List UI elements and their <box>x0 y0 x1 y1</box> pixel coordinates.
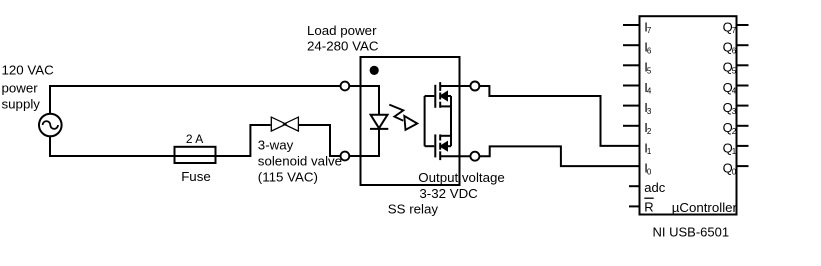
pin Q4 <box>723 80 749 96</box>
Q1 body stub <box>447 95 451 97</box>
Q1 gate lead <box>425 95 435 97</box>
fuse F1 (2 A) <box>175 147 216 163</box>
label: 120 VAC power supply <box>2 63 55 112</box>
pin Q6 <box>723 40 749 56</box>
terminal: SSR input top <box>341 82 350 91</box>
pin Q1 <box>723 140 749 156</box>
pin I4 <box>623 80 652 96</box>
svg-text:120 VAC: 120 VAC <box>2 63 55 78</box>
terminal: SSR output top <box>470 82 479 91</box>
LED D1 <box>370 115 388 129</box>
wire: input top terminal into LED anode <box>349 86 379 114</box>
svg-text:solenoid valve: solenoid valve <box>258 154 342 169</box>
pin I5 <box>623 60 652 76</box>
pin R (active low reset) <box>629 198 654 214</box>
label: 3-way solenoid valve (115 VAC) <box>258 138 342 185</box>
uController box NI USB-6501 <box>640 16 737 214</box>
pin I2 <box>623 120 652 136</box>
svg-text:SS relay: SS relay <box>388 201 439 216</box>
pin Q5 <box>723 60 749 76</box>
svg-text:2 A: 2 A <box>186 132 203 146</box>
polarity dot <box>370 66 379 75</box>
Q1 drain stub to top output terminal <box>440 85 470 87</box>
Q2 body arrow <box>441 142 447 150</box>
svg-text:Output voltage: Output voltage <box>418 170 505 185</box>
Q1 source stub <box>440 105 451 107</box>
Q1 channel body segment <box>439 93 441 100</box>
Q1 body arrow <box>441 92 447 100</box>
pin I3 <box>623 100 652 116</box>
Q2 gate lead <box>425 145 435 147</box>
label: Output voltage 3-32 VDC <box>418 170 505 201</box>
Q2 body stub <box>447 145 451 147</box>
svg-text:Fuse: Fuse <box>181 169 211 184</box>
pin adc <box>629 180 666 195</box>
svg-text:adc: adc <box>644 180 665 195</box>
label: Load power 24-280 VAC <box>307 23 379 54</box>
svg-text:Load power: Load power <box>307 23 377 38</box>
Q2 channel body segment <box>439 143 441 150</box>
svg-text:R: R <box>644 200 653 215</box>
Q2 channel drain segment <box>439 151 441 160</box>
svg-text:µController: µController <box>672 200 738 215</box>
valve: 3-way solenoid valve symbol <box>271 117 298 131</box>
Q1 channel drain segment <box>439 82 441 91</box>
svg-text:3-32 VDC: 3-32 VDC <box>419 186 478 201</box>
AC source V1 <box>39 114 62 137</box>
Q2 gate bar <box>434 134 436 157</box>
svg-text:NI USB-6501: NI USB-6501 <box>653 225 730 240</box>
pin I6 <box>623 40 652 56</box>
pin Q7 <box>723 19 749 35</box>
Q1 channel source segment <box>439 102 441 108</box>
pin Q3 <box>723 100 749 116</box>
Q1 gate bar <box>434 85 436 108</box>
terminal: SSR output bottom <box>470 152 479 161</box>
svg-text:supply: supply <box>2 97 41 112</box>
wire: top rail from AC source to SSR left top terminal <box>50 86 341 114</box>
SS relay box U1 <box>361 57 460 185</box>
svg-text:power: power <box>2 80 39 95</box>
pin I7 <box>623 19 652 35</box>
pin Q2 <box>723 120 749 136</box>
light emission arrow <box>389 105 417 130</box>
Q2 drain stub to bottom output terminal <box>440 155 470 157</box>
MOSFET Q2 (bottom) <box>425 134 471 160</box>
wire: shared gate bus <box>424 96 426 146</box>
wire: valve to SSR bottom terminal <box>299 125 341 156</box>
pin Q0 <box>723 161 749 177</box>
svg-text:(115 VAC): (115 VAC) <box>258 169 318 184</box>
wire: top output terminal to uController pin I1 <box>479 86 638 146</box>
Q2 source stub <box>440 135 451 137</box>
svg-text:24-280 VAC: 24-280 VAC <box>307 39 379 54</box>
Q2 channel source segment <box>439 134 441 140</box>
wire: shared source bus <box>450 96 452 146</box>
terminal: SSR input bottom <box>341 152 350 161</box>
wire: bottom rail from AC source through fuse to valve riser <box>50 125 271 156</box>
wire: bottom output terminal to uController pin I0 <box>479 146 638 166</box>
wire: LED cathode down to input bottom terminal <box>349 129 379 156</box>
MOSFET Q1 (top) <box>425 82 471 108</box>
svg-text:3-way: 3-way <box>258 138 294 153</box>
